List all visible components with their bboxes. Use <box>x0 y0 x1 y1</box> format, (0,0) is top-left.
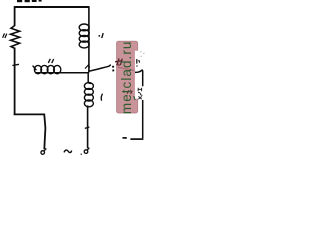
wire: horizontal coil to junction <box>35 72 89 74</box>
wire: left vertical upper segment <box>14 6 16 26</box>
wire: junction down to lower coil <box>88 73 91 84</box>
tick on lower wire <box>85 127 90 128</box>
label of L1 (dot + italic l) <box>98 35 100 37</box>
label R (italic) <box>3 33 7 38</box>
wire: lower coil to vertical <box>87 106 89 109</box>
inductor L2 (horizontal coil) lead <box>33 66 37 71</box>
wire: top horizontal from left corner to right corner <box>14 6 89 8</box>
dash (broken wire end) <box>123 137 127 139</box>
tick on left wire <box>12 64 19 65</box>
junction tick <box>85 65 90 69</box>
terminal (input, left): circle with tick <box>41 151 45 155</box>
wire: right vertical from top corner down to junction <box>88 6 90 72</box>
dark label under watermark (и) <box>115 58 122 65</box>
svg-text:metclad.ru: metclad.ru <box>119 41 134 115</box>
wire: output branch from junction to right <box>88 65 111 72</box>
inductor L2 (horizontal coil) <box>34 65 60 73</box>
resistor R (zigzag) <box>11 26 20 49</box>
dark marks under watermark near bottom <box>127 90 132 94</box>
small green mark <box>134 96 135 100</box>
label above horizontal coil (italic marks) <box>48 59 53 63</box>
watermark pink box <box>117 41 138 113</box>
wire: right vertical lower segment <box>142 100 144 138</box>
wire: bottom-right corner to left <box>130 138 143 140</box>
wire: bottom-left corner to lower terminal <box>14 114 46 150</box>
terminal (input, right): circle with tick <box>84 150 88 154</box>
wire: hook from output wire into right vertical <box>135 70 143 86</box>
rotated output label Вых <box>138 88 142 100</box>
wire: lower coil down to right terminal <box>87 107 89 148</box>
black bits on patch <box>137 59 140 67</box>
inductor L1 (top vertical coil) <box>79 24 89 48</box>
label of L3 (italic l) <box>101 94 102 101</box>
inductor L3 (lower vertical coil) <box>84 83 93 107</box>
dark red dash at box left edge <box>116 64 120 67</box>
grey specks on patch <box>140 52 145 57</box>
white patch over watermark (label background) <box>135 51 147 99</box>
wire: left vertical lower segment <box>14 48 16 114</box>
colon mark upper dot at output <box>112 66 114 68</box>
colon mark lower dot at output <box>112 70 114 72</box>
AC source tilde <box>64 150 72 153</box>
faint wire seen through watermark <box>118 67 135 70</box>
cropped dashes at top edge <box>17 0 42 2</box>
